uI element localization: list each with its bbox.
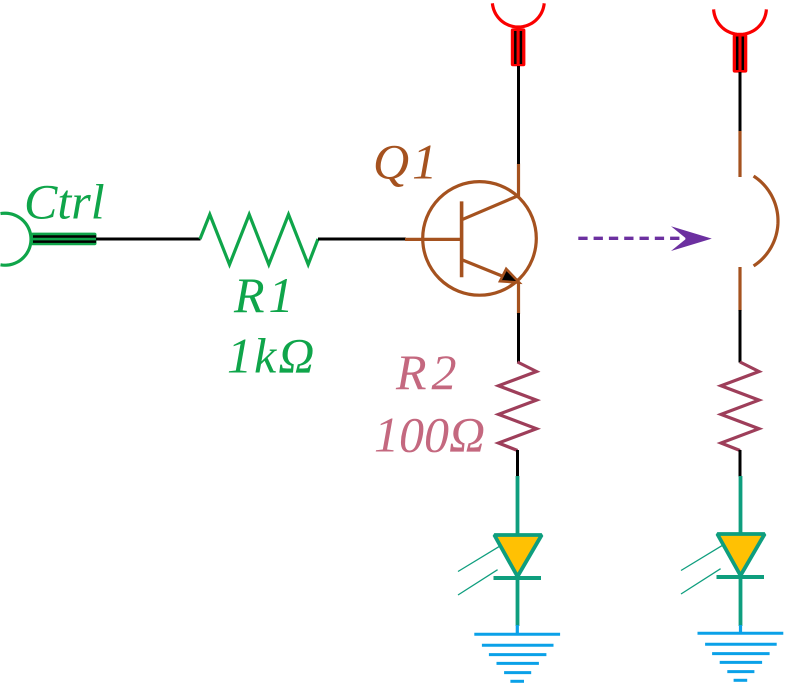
svg-text:R2: R2 [395,344,462,400]
svg-text:Q1: Q1 [373,134,440,190]
svg-text:1kΩ: 1kΩ [227,328,316,384]
svg-text:100Ω: 100Ω [374,407,485,463]
svg-text:R1: R1 [233,267,298,323]
svg-text:Ctrl: Ctrl [24,174,105,230]
